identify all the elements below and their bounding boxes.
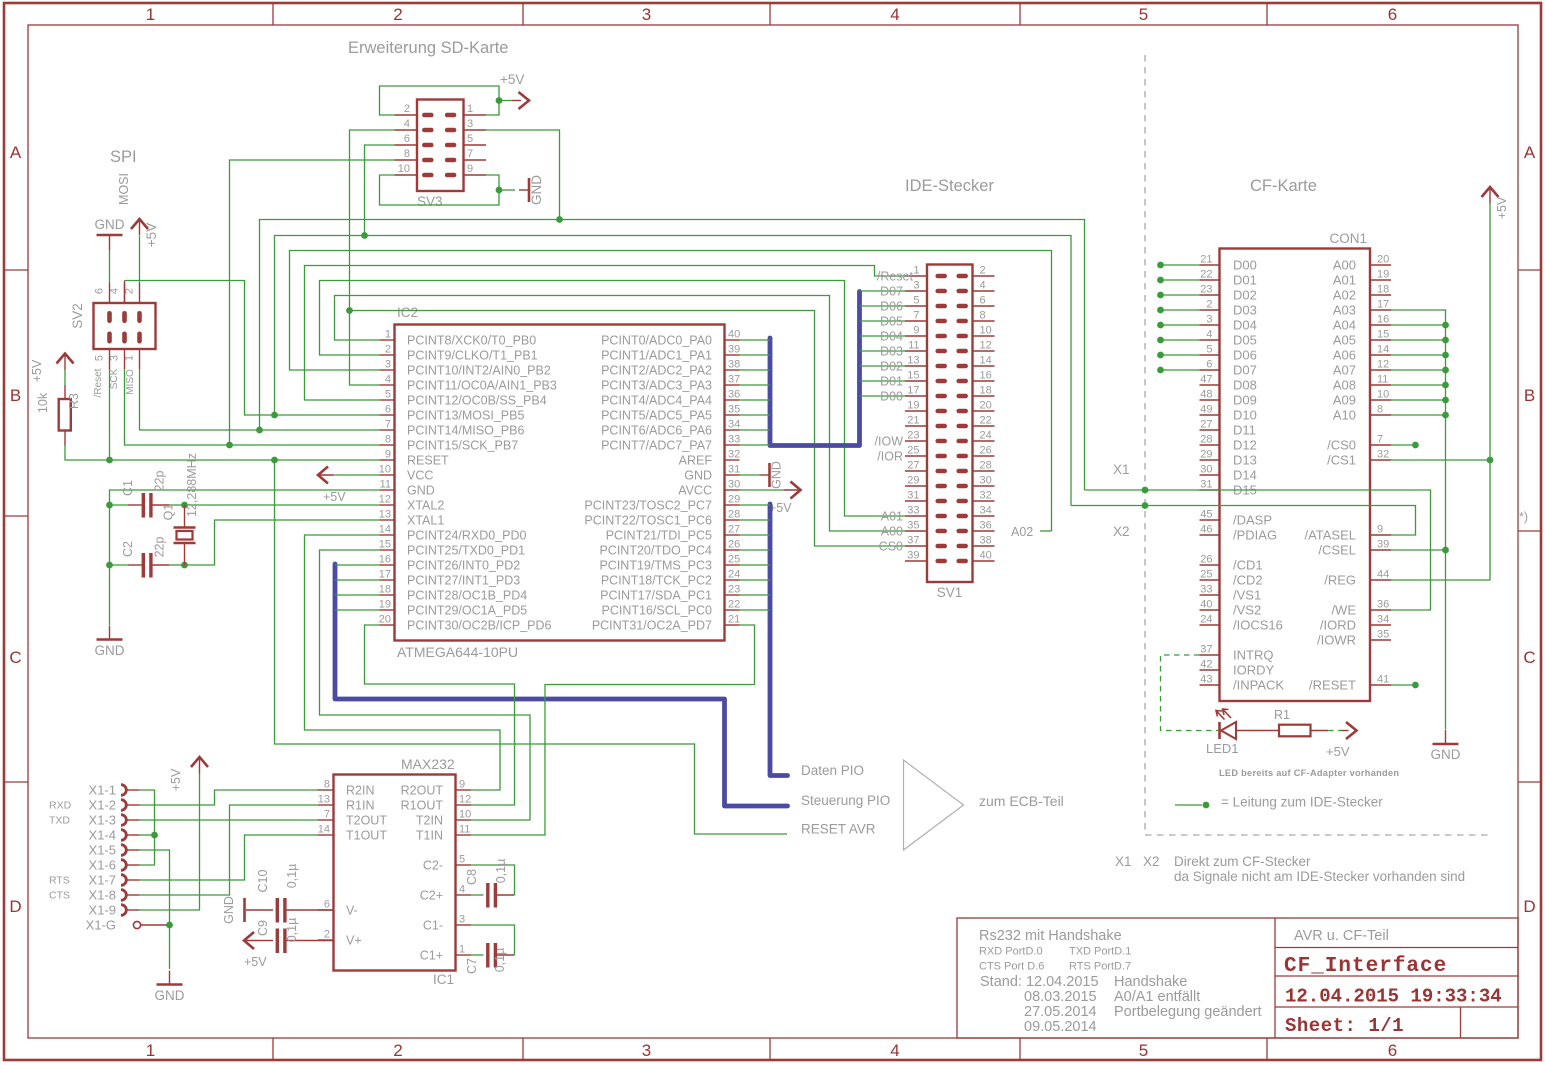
MAX232 pin 4 C2+: [456, 894, 472, 896]
CON1 pin 12 A07: [1370, 369, 1391, 371]
svg-text:C2+: C2+: [420, 888, 443, 902]
svg-text:D05: D05: [880, 314, 903, 328]
svg-text:/CD2: /CD2: [1233, 572, 1263, 587]
junction /CS1 +5V: [1487, 457, 1494, 464]
CON1 pin 9 /ATASEL: [1370, 534, 1391, 536]
svg-text:21: 21: [728, 614, 740, 626]
IC2 pin 8 PB7: [380, 444, 395, 446]
svg-text:PCINT5/ADC5_PA5: PCINT5/ADC5_PA5: [601, 408, 712, 422]
svg-text:2: 2: [124, 288, 136, 294]
svg-text:D: D: [9, 897, 21, 916]
svg-text:PCINT3/ADC3_PA3: PCINT3/ADC3_PA3: [601, 378, 712, 392]
CON1 pin 29 D13: [1200, 459, 1220, 461]
svg-text:B: B: [10, 386, 21, 405]
svg-text:12: 12: [1377, 359, 1389, 371]
svg-text:6: 6: [385, 404, 391, 416]
svg-text:D00: D00: [880, 389, 903, 403]
svg-text:12.04.2015 19:33:34: 12.04.2015 19:33:34: [1285, 986, 1502, 1008]
svg-text:15: 15: [1377, 329, 1389, 341]
svg-text:47: 47: [1200, 374, 1212, 386]
svg-text:34: 34: [1377, 614, 1389, 626]
svg-text:11: 11: [459, 824, 470, 836]
legend wire with dot: [1175, 804, 1202, 806]
svg-text:A08: A08: [1333, 377, 1356, 392]
IC2 pin 9 RESET: [380, 459, 395, 461]
svg-text:30: 30: [728, 479, 740, 491]
CON1 pin 36 /WE: [1370, 609, 1391, 611]
wire net RTS PD7 to MAX232 T1IN: [471, 625, 755, 835]
svg-text:PCINT6/ADC6_PA6: PCINT6/ADC6_PA6: [601, 423, 712, 437]
MAX232 pin 5 C2-: [456, 864, 472, 866]
svg-text:/PDIAG: /PDIAG: [1233, 527, 1277, 542]
svg-text:A02: A02: [1333, 287, 1356, 302]
svg-text:RESET: RESET: [407, 453, 449, 467]
svg-text:D02: D02: [1233, 287, 1257, 302]
svg-text:11: 11: [1377, 374, 1388, 386]
MAX232 pin 8 R2IN: [318, 789, 334, 791]
svg-text:X2: X2: [1143, 854, 1160, 869]
svg-text:D06: D06: [1233, 347, 1257, 362]
svg-text:6: 6: [94, 288, 106, 294]
svg-text:7: 7: [913, 310, 919, 322]
svg-text:C: C: [9, 648, 21, 667]
junction C2 gnd side: [106, 562, 113, 569]
svg-text:25: 25: [1200, 569, 1212, 581]
CON1 pin 35 /IOWR: [1370, 639, 1391, 641]
svg-text:C2: C2: [121, 541, 135, 557]
svg-text:D04: D04: [880, 329, 903, 343]
svg-text:1: 1: [124, 355, 136, 361]
MAX232 pin 11 T1IN: [456, 834, 472, 836]
svg-text:25: 25: [728, 554, 740, 566]
svg-text:17: 17: [379, 569, 391, 581]
IC2 pin 29 PC7: [725, 504, 740, 506]
svg-text:Portbelegung geändert: Portbelegung geändert: [1114, 1004, 1262, 1020]
svg-text:30: 30: [980, 475, 992, 487]
SV1 pins 21/22: [905, 425, 927, 427]
IC2 pin 5 PB4: [380, 399, 395, 401]
svg-text:45: 45: [1200, 509, 1212, 521]
SV1 pins 35/36: [905, 530, 927, 532]
svg-text:A: A: [1524, 143, 1536, 162]
wire +5V rail to /CS1 and /REG: [1391, 204, 1490, 581]
IC2 pin 32 AREF: [725, 459, 740, 461]
svg-text:D00: D00: [1233, 257, 1257, 272]
CON1 pin 7 /CS0: [1370, 444, 1391, 446]
wire MOSI from SV2 pin4: [124, 281, 126, 304]
IC2 pin 21 PD7: [725, 624, 740, 626]
wire stubs PD2-PD5 to bus: [335, 564, 380, 566]
svg-text:SV3: SV3: [417, 194, 443, 209]
svg-text:13: 13: [907, 355, 919, 367]
pad X1-5: [121, 845, 126, 856]
wire net PB4 to IDE /Reset: [305, 266, 906, 401]
CON1 pin 4 D05: [1200, 339, 1220, 341]
svg-text:8: 8: [980, 310, 986, 322]
pad X1-7: [121, 875, 126, 886]
svg-text:A01: A01: [881, 509, 903, 523]
wire net RESET to IC2 pin9: [110, 459, 380, 461]
frame column ticks bottom: [272, 1038, 274, 1060]
ground symbol CF: [1445, 730, 1447, 744]
svg-text:ATMEGA644-10PU: ATMEGA644-10PU: [397, 644, 518, 660]
svg-text:2: 2: [393, 5, 402, 24]
wire X1-8 CTS to R1IN: [140, 805, 319, 895]
pad X1-1: [121, 785, 126, 796]
CON1 pin 48 D09: [1200, 399, 1220, 401]
svg-text:A00: A00: [1333, 257, 1356, 272]
svg-text:/INPACK: /INPACK: [1233, 677, 1284, 692]
pad X1-6: [121, 860, 126, 871]
wire X1-2 RXD to R2IN: [140, 790, 319, 805]
svg-text:46: 46: [1200, 524, 1212, 536]
ground symbol below C2: [109, 626, 111, 640]
CON1 pin 43 /INPACK: [1200, 684, 1220, 686]
svg-text:+5V: +5V: [144, 223, 159, 247]
svg-text:20: 20: [1377, 254, 1389, 266]
svg-text:RXD PortD.0: RXD PortD.0: [979, 946, 1043, 958]
svg-text:14: 14: [379, 524, 391, 536]
svg-text:5: 5: [913, 295, 919, 307]
svg-text:9: 9: [467, 163, 473, 175]
svg-text:A03: A03: [1333, 302, 1356, 317]
svg-text:19: 19: [379, 599, 391, 611]
svg-text:4: 4: [385, 374, 391, 386]
CON1 pin 42 IORDY: [1200, 669, 1220, 671]
junction /CSEL: [1442, 547, 1449, 554]
svg-text:16: 16: [1377, 314, 1389, 326]
svg-text:33: 33: [1200, 584, 1212, 596]
svg-text:18: 18: [980, 385, 992, 397]
MAX232 pin 6 V-: [318, 909, 334, 911]
svg-text:D09: D09: [1233, 392, 1257, 407]
svg-text:A07: A07: [1333, 362, 1356, 377]
svg-text:/VS2: /VS2: [1233, 602, 1261, 617]
svg-text:14: 14: [980, 355, 992, 367]
connector SV3 body: [417, 100, 464, 192]
svg-text:37: 37: [907, 535, 919, 547]
svg-text:34: 34: [980, 505, 992, 517]
svg-text:PCINT20/TDO_PC4: PCINT20/TDO_PC4: [599, 543, 712, 557]
pad X1-4: [121, 830, 126, 841]
svg-text:8: 8: [324, 779, 330, 791]
svg-text:8: 8: [385, 434, 391, 446]
svg-text:5: 5: [459, 854, 465, 866]
IC2 pin 24 PC2: [725, 579, 740, 581]
svg-text:16: 16: [379, 554, 391, 566]
svg-text:29: 29: [728, 494, 740, 506]
svg-text:27: 27: [907, 460, 919, 472]
svg-text:24: 24: [980, 430, 992, 442]
svg-text:A0/A1 entfällt: A0/A1 entfällt: [1114, 989, 1200, 1005]
svg-text:13: 13: [379, 509, 391, 521]
svg-text:A06: A06: [1333, 347, 1356, 362]
svg-text:SCK: SCK: [109, 368, 120, 389]
CON1 pin 24 /IOCS16: [1200, 624, 1220, 626]
svg-text:CTS Port D.6: CTS Port D.6: [979, 961, 1044, 973]
supply +5V arrow at SV2 pin2: [139, 236, 141, 283]
bus Steuerung PIO (PD2-PD5): [335, 564, 788, 806]
svg-text:CF_Interface: CF_Interface: [1284, 955, 1447, 978]
CON1 pin 44 /REG: [1370, 579, 1391, 581]
CON1 pin 5 D06: [1200, 354, 1220, 356]
svg-text:PCINT18/TCK_PC2: PCINT18/TCK_PC2: [601, 573, 712, 587]
supply +5V arrow at LED: [1341, 730, 1349, 732]
IC2 pin 38 PA2: [725, 369, 740, 371]
IC2 pin 31 GND: [725, 474, 740, 476]
svg-text:CS0: CS0: [879, 539, 903, 553]
svg-text:C7: C7: [465, 958, 479, 974]
svg-text:D07: D07: [1233, 362, 1257, 377]
IC2 pin 22 PC0: [725, 609, 740, 611]
svg-text:2: 2: [980, 265, 986, 277]
CON1 pin 19 A01: [1370, 279, 1391, 281]
wire /RESET to IDE dot: [1391, 684, 1412, 686]
wire SV3 pin6 to net MOSI: [365, 145, 395, 236]
SV1 pins 23/24: [905, 440, 927, 442]
svg-text:13: 13: [318, 794, 330, 806]
IC2 pin 19 PD5: [380, 609, 395, 611]
svg-text:6: 6: [1206, 359, 1212, 371]
svg-text:6: 6: [980, 295, 986, 307]
svg-text:X1: X1: [1113, 462, 1130, 477]
svg-text:C1-: C1-: [423, 918, 443, 932]
ground symbol below X1: [169, 971, 171, 985]
capacitor C8 (C2+/C2-): [471, 894, 484, 896]
svg-text:6: 6: [1388, 5, 1397, 24]
capacitor C7 (C1+/C1-): [471, 954, 484, 956]
IC2 pin 26 PC4: [725, 549, 740, 551]
svg-text:22p: 22p: [153, 537, 167, 558]
IC2 pin 10 VCC: [380, 474, 395, 476]
pad X1-3: [121, 815, 126, 826]
svg-text:X1-9: X1-9: [89, 902, 116, 917]
svg-text:35: 35: [907, 520, 919, 532]
junction X2 crossing: [1142, 502, 1149, 509]
svg-text:/IORD: /IORD: [1320, 617, 1356, 632]
svg-text:PCINT2/ADC2_PA2: PCINT2/ADC2_PA2: [601, 363, 712, 377]
svg-text:18: 18: [1377, 284, 1389, 296]
svg-text:44: 44: [1377, 569, 1389, 581]
svg-text:Erweiterung SD-Karte: Erweiterung SD-Karte: [348, 39, 508, 57]
svg-text:D10: D10: [1233, 407, 1257, 422]
svg-text:8: 8: [1377, 404, 1383, 416]
svg-text:0,1µ: 0,1µ: [494, 859, 508, 884]
svg-text:26: 26: [728, 539, 740, 551]
svg-text:CON1: CON1: [1329, 231, 1367, 246]
svg-text:35: 35: [1377, 629, 1389, 641]
svg-text:IC1: IC1: [433, 972, 454, 987]
capacitor C2: [110, 564, 129, 566]
svg-text:1: 1: [913, 265, 919, 277]
svg-text:+5V: +5V: [244, 955, 267, 969]
pad X1-8: [121, 890, 126, 901]
SV1 pins 11/12: [905, 350, 927, 352]
svg-text:2: 2: [385, 344, 391, 356]
junction SV3 pin6: [361, 232, 368, 239]
svg-text:PCINT21/TDI_PC5: PCINT21/TDI_PC5: [606, 528, 712, 542]
svg-text:PCINT27/INT1_PD3: PCINT27/INT1_PD3: [407, 573, 520, 587]
svg-text:D: D: [1523, 897, 1535, 916]
svg-text:+5V: +5V: [769, 501, 792, 515]
svg-text:/REG: /REG: [1324, 572, 1356, 587]
connector SV3 pin dashes: [422, 113, 434, 118]
IC2 pin 4 PB3: [380, 384, 395, 386]
CON1 pin 15 A05: [1370, 339, 1391, 341]
CON1 pin 27 D11: [1200, 429, 1220, 431]
junction X1-4: [151, 832, 158, 839]
svg-text:R2OUT: R2OUT: [401, 783, 444, 797]
svg-text:T1OUT: T1OUT: [346, 828, 387, 842]
svg-text:09.05.2014: 09.05.2014: [1024, 1019, 1097, 1035]
svg-text:40: 40: [728, 329, 740, 341]
svg-text:38: 38: [980, 535, 992, 547]
svg-text:48: 48: [1200, 389, 1212, 401]
svg-text:SV2: SV2: [70, 303, 85, 329]
svg-text:X1-5: X1-5: [89, 842, 116, 857]
svg-text:T2IN: T2IN: [416, 813, 443, 827]
bus Daten PIO upper (PA0-PA7 to IDE data): [770, 292, 860, 446]
supply +5V arrow CF top right: [1489, 187, 1491, 204]
svg-text:GND: GND: [222, 896, 236, 924]
svg-text:Handshake: Handshake: [1114, 974, 1187, 990]
CON1 pin 39 /CSEL: [1370, 549, 1391, 551]
svg-text:/Reset: /Reset: [877, 269, 914, 283]
svg-text:18: 18: [379, 584, 391, 596]
SV1 pins 13/14: [905, 365, 927, 367]
svg-text:23: 23: [907, 430, 919, 442]
supply +5V arrow at SV3: [499, 100, 512, 102]
svg-text:10: 10: [459, 809, 471, 821]
svg-text:PCINT16/SCL_PC0: PCINT16/SCL_PC0: [602, 603, 713, 617]
IC2 pin 25 PC3: [725, 564, 740, 566]
SV1 pins 1/2: [905, 275, 927, 277]
SV1 pins 19/20: [905, 410, 927, 412]
svg-text:25: 25: [907, 445, 919, 457]
svg-text:IDE-Stecker: IDE-Stecker: [905, 177, 994, 195]
CON1 pin 47 D08: [1200, 384, 1220, 386]
IC2 pin 39 PA1: [725, 354, 740, 356]
svg-text:/CS0: /CS0: [1327, 437, 1356, 452]
svg-text:28: 28: [728, 509, 740, 521]
svg-text:3: 3: [385, 359, 391, 371]
wire X1-5 to GND: [140, 850, 170, 969]
svg-text:PCINT19/TMS_PC3: PCINT19/TMS_PC3: [599, 558, 712, 572]
svg-text:28: 28: [980, 460, 992, 472]
svg-text:D06: D06: [880, 299, 903, 313]
CON1 pin 41 /RESET: [1370, 684, 1391, 686]
svg-text:C1: C1: [121, 480, 135, 496]
svg-text:15: 15: [907, 370, 919, 382]
svg-text:20: 20: [379, 614, 391, 626]
wire SV3 pin3 to net MISO: [486, 130, 560, 220]
wire net A03-A10 /CSEL to GND: [1391, 310, 1446, 730]
wire /Reset from SV2 pin5: [109, 369, 111, 460]
IC2 pin 15 PD1: [380, 549, 395, 551]
svg-text:20: 20: [980, 400, 992, 412]
svg-text:SPI: SPI: [110, 148, 137, 166]
connector SV3 pin stubs right: [464, 114, 487, 116]
svg-text:LED bereits auf CF-Adapter vor: LED bereits auf CF-Adapter vorhanden: [1219, 768, 1399, 778]
wire net MISO-ext (IC2 PB6, SV3 pin3, CF D15): [260, 220, 1085, 491]
svg-text:PCINT28/OC1B_PD4: PCINT28/OC1B_PD4: [407, 588, 527, 602]
svg-text:22: 22: [728, 599, 740, 611]
svg-text:49: 49: [1200, 404, 1212, 416]
svg-text:PCINT22/TOSC1_PC6: PCINT22/TOSC1_PC6: [584, 513, 712, 527]
CON1 pin 40 /VS2: [1200, 609, 1220, 611]
svg-text:TXD: TXD: [49, 815, 70, 827]
svg-text:A: A: [10, 143, 22, 162]
svg-text:5: 5: [467, 133, 473, 145]
svg-text:10: 10: [398, 163, 410, 175]
svg-text:X1-7: X1-7: [89, 872, 116, 887]
svg-text:5: 5: [1139, 1041, 1148, 1060]
svg-text:4: 4: [980, 280, 986, 292]
IC2 pin 35 PA5: [725, 414, 740, 416]
svg-text:3: 3: [642, 5, 651, 24]
junction SV3 pin4 branch CS0: [346, 307, 353, 314]
svg-text:9: 9: [1377, 524, 1383, 536]
svg-text:34: 34: [728, 419, 740, 431]
SV1 pins 37/38: [905, 545, 927, 547]
svg-text:+5V: +5V: [1495, 196, 1509, 219]
IC2 pin 37 PA3: [725, 384, 740, 386]
capacitor C9 (V+): [261, 940, 274, 942]
CON1 pin 46 /PDIAG: [1200, 534, 1220, 536]
svg-text:INTRQ: INTRQ: [1233, 647, 1273, 662]
IC2 pin 20 PD6: [380, 624, 395, 626]
svg-text:0,1µ: 0,1µ: [285, 864, 299, 889]
CON1 pin 31 D15: [1200, 489, 1220, 491]
MAX232 pin 10 T2IN: [456, 819, 472, 821]
MAX232 pin 9 R2OUT: [456, 789, 472, 791]
svg-text:1: 1: [385, 329, 391, 341]
svg-text:29: 29: [1200, 449, 1212, 461]
wire net X1 D15 /WE: [1085, 490, 1431, 610]
wire XTAL GND rail: [110, 490, 380, 625]
svg-text:Direkt zum CF-Stecker: Direkt zum CF-Stecker: [1174, 854, 1311, 869]
wire MISO from SV2 pin1: [140, 369, 380, 430]
svg-text:36: 36: [1377, 599, 1389, 611]
capacitor C1: [110, 504, 129, 506]
wire net PB3/CS0: [350, 311, 906, 547]
svg-text:12: 12: [379, 494, 391, 506]
svg-text:4: 4: [1206, 329, 1212, 341]
svg-text:0,1µ: 0,1µ: [285, 918, 299, 943]
svg-text:43: 43: [1200, 674, 1212, 686]
frame column ticks top: [272, 3, 274, 25]
svg-text:22: 22: [980, 415, 992, 427]
svg-text:R2IN: R2IN: [346, 783, 374, 797]
svg-text:1: 1: [146, 1041, 155, 1060]
SV1 pins 27/28: [905, 470, 927, 472]
svg-text:2: 2: [324, 929, 330, 941]
svg-text:CF-Karte: CF-Karte: [1250, 177, 1317, 195]
IC2 pin 17 PD3: [380, 579, 395, 581]
IC2 pin 13 XTAL1: [380, 519, 395, 521]
svg-text:15: 15: [379, 539, 391, 551]
svg-text:+5V: +5V: [169, 768, 183, 791]
svg-text:7: 7: [385, 419, 391, 431]
svg-text:3: 3: [459, 914, 465, 926]
IC2 pin 6 PB5: [380, 414, 395, 416]
ground symbol at SV3: [499, 189, 515, 191]
wire SV3 pin4 to IC2 PB3: [350, 130, 395, 385]
svg-text:R1OUT: R1OUT: [401, 798, 444, 812]
svg-text:RTS: RTS: [49, 875, 70, 887]
svg-text:/ATASEL: /ATASEL: [1304, 527, 1356, 542]
CON1 pin 49 D10: [1200, 414, 1220, 416]
